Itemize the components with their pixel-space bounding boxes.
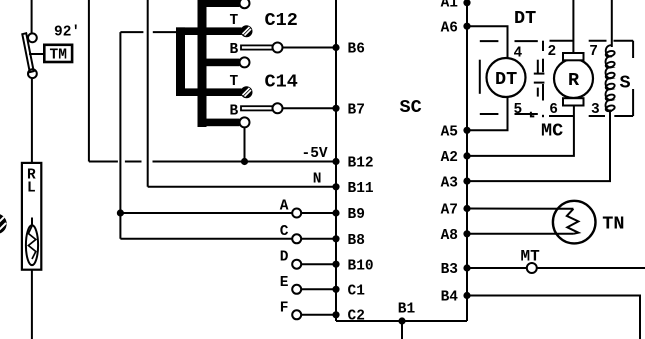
svg-text:A: A [280,199,289,215]
svg-text:3: 3 [591,102,600,118]
pin 2 [548,44,557,60]
pin 4 [514,46,523,62]
wire: -5V row (hops over two verticals) [89,161,336,163]
cam stub row 3 [202,117,250,127]
svg-text:B3: B3 [441,262,458,278]
svg-text:C2: C2 [348,309,365,325]
svg-text:B: B [230,104,239,120]
svg-text:DT: DT [495,69,517,90]
svg-text:C: C [280,224,289,240]
svg-text:A6: A6 [441,21,458,37]
wire B3 / terminal MT [467,247,645,273]
wire A7 to TN [467,208,573,210]
connector SC bus line [335,0,337,321]
pin 7 [589,44,598,60]
label 92' [54,25,80,41]
svg-text:B: B [230,42,239,58]
wire [31,78,33,163]
svg-text:6: 6 [549,102,558,118]
switch TM (92') [22,33,44,78]
wire: S coil top feed [611,0,613,47]
wire DT motor to A5 [467,97,508,131]
lamp RL [22,163,41,270]
wire: S coil to A3 [467,110,610,182]
svg-text:TN: TN [602,213,624,234]
svg-text:B9: B9 [348,207,365,223]
pin 5 [514,102,523,118]
svg-text:7: 7 [589,44,598,60]
pin 6 [549,102,558,118]
junction dots on A-column [463,0,470,299]
svg-text:2: 2 [548,44,557,60]
cam stub T (C14) closed contact [176,87,252,97]
svg-text:T: T [230,74,239,90]
cam stub T (C12) closed contact [176,26,252,36]
wire: C14 lower stub to -5V row [241,127,248,165]
cam bar (left) [176,27,185,95]
labels A1 A6 A5 A2 A3 A7 A8 B3 B4 [441,0,459,306]
svg-text:B10: B10 [348,258,374,274]
svg-text:B7: B7 [348,103,365,119]
svg-text:B11: B11 [348,181,374,197]
terminal D row [280,250,336,269]
svg-text:B6: B6 [348,42,365,58]
bottom row wire C2-B1-A column [336,302,467,339]
svg-text:5: 5 [514,102,523,118]
label MC [541,121,563,142]
svg-text:A2: A2 [441,150,458,166]
svg-text:MT: MT [521,247,541,265]
wire: R motor top feed [572,0,574,54]
svg-text:A3: A3 [441,175,458,191]
capacitor (suppressor plates) [534,74,545,83]
wire: timer supply line [31,0,33,34]
svg-text:C1: C1 [348,284,366,300]
svg-text:B1: B1 [398,302,416,318]
wire A6 to DT motor [467,26,508,58]
svg-text:N: N [313,171,322,187]
svg-text:R: R [568,70,580,91]
labels T B C14 [230,72,298,120]
svg-text:D: D [280,250,289,266]
motor DT (tacho) [487,58,526,97]
svg-text:C14: C14 [265,72,298,93]
connector box DT (dash-dot) [480,41,538,114]
label N [313,171,322,187]
svg-text:E: E [280,275,289,291]
contact blade B (C14) [241,103,336,113]
svg-text:F: F [280,301,289,317]
labels T B C12 [230,10,298,58]
pin 3 [591,102,600,118]
motor R (rotor) [554,53,593,106]
svg-text:-5V: -5V [302,146,328,162]
wire: cam feed line (T row to A/C rows) [120,32,177,239]
svg-text:SC: SC [400,97,422,118]
svg-text:TM: TM [50,48,67,64]
label S [620,73,631,94]
svg-text:DT: DT [514,8,536,29]
label SC [400,97,422,118]
wire [31,270,33,339]
svg-text:B12: B12 [348,156,374,172]
svg-text:T: T [230,13,239,29]
connector box corner mark [531,112,534,117]
svg-text:MC: MC [541,121,563,142]
wire: R motor to A2 [467,106,574,156]
svg-text:B8: B8 [348,233,365,249]
cam bar (right) [198,0,207,127]
wire A8 to TN [467,233,573,235]
label -5V [302,146,328,162]
svg-text:A1: A1 [441,0,459,11]
labels B6 B7 B12 B11 B9 B8 B10 C1 C2 [348,42,374,325]
label DT (assembly) [514,8,536,29]
svg-text:C12: C12 [265,10,298,31]
terminal A row [117,199,336,218]
cam stub row 1 [202,0,250,8]
box TM [44,45,72,64]
terminal F row [280,301,336,320]
svg-text:A7: A7 [441,203,458,219]
svg-text:A8: A8 [441,228,458,244]
junction (hatched contact, cut by left edge) [0,214,7,235]
cam stub row 2 [202,57,250,67]
svg-text:92': 92' [54,25,80,41]
terminal C row [120,224,336,243]
connector box MC (dash-dot) [543,41,633,118]
svg-text:B4: B4 [441,290,459,306]
connector A bus line [466,0,468,321]
svg-text:L: L [27,181,36,197]
contact blade B (C12) [241,43,336,53]
svg-text:4: 4 [514,46,523,62]
junction dots on SC B-column [332,44,339,319]
terminal E row [280,275,336,294]
wire B4 to bottom edge [467,296,640,339]
svg-text:S: S [620,73,631,94]
svg-text:A5: A5 [441,125,458,141]
inductor S (stator) [605,45,615,112]
thermistor TN [553,201,625,244]
wire: left line to -5V row [88,0,90,162]
wire: N line [148,0,336,187]
